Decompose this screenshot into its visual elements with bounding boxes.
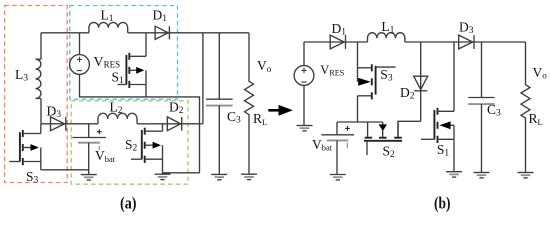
svg-text:S1: S1	[437, 142, 450, 159]
label RL (a)	[253, 111, 267, 127]
label D3 (b)	[459, 20, 474, 36]
transistor S3 (a)	[9, 124, 41, 170]
capacitor C3 (b)	[468, 42, 494, 173]
source VRES (b)	[294, 66, 314, 86]
dashed box blue (L1/D1/S1 cell)	[70, 6, 178, 100]
transistor S2 (a)	[131, 124, 163, 174]
svg-text:(b): (b)	[434, 194, 451, 213]
ground Vbat (b)	[330, 175, 346, 180]
ground S1 (b)	[446, 172, 462, 177]
svg-text:D3: D3	[459, 20, 474, 36]
resistor RL (a)	[245, 33, 254, 174]
wire VRES top lead	[79, 33, 81, 55]
diode D3 (b)	[459, 35, 474, 49]
label L3	[15, 67, 28, 84]
wire lower rail (a) S2/D2 segment	[137, 123, 203, 125]
svg-text:RL: RL	[253, 111, 267, 127]
ground VRES (b)	[297, 126, 313, 131]
label Vbat (b)	[312, 137, 333, 153]
label Vo (b)	[533, 65, 548, 81]
svg-text:L1: L1	[101, 8, 114, 25]
wire top rail (a) left segment	[41, 32, 89, 34]
transistor S1 (b)	[421, 42, 454, 172]
wire return rail (a) VRES- to S1 source to ground drop	[80, 74, 200, 172]
label S1 (b)	[437, 142, 450, 159]
label S3 (b)	[380, 67, 393, 84]
label S2 (a)	[125, 137, 138, 154]
wire S3 (b) source down to Vbat rail	[357, 96, 359, 122]
diode D1 (b)	[330, 35, 345, 49]
wire D2 (b) cathode jog to S2 right bar	[398, 121, 421, 137]
battery Vbat (b)	[321, 122, 354, 175]
label (b)	[434, 194, 451, 213]
label L1 (a)	[101, 8, 114, 25]
label Vo (a)	[257, 58, 272, 74]
inductor L3	[36, 59, 42, 98]
diode D2 (b) vertical	[414, 42, 428, 121]
label L2	[110, 100, 123, 117]
battery Vbat (a)	[72, 124, 106, 175]
label D2 (b)	[400, 85, 415, 102]
wire lower rail (a) D3 segment	[41, 123, 98, 125]
label S1 (a)	[112, 70, 125, 87]
svg-text:Vbat: Vbat	[95, 148, 116, 164]
inductor L1 (b)	[367, 33, 404, 42]
svg-text:Vo: Vo	[257, 58, 272, 74]
source VRES (a)	[70, 55, 90, 75]
svg-text:RL: RL	[529, 111, 543, 127]
svg-text:(a): (a)	[120, 194, 137, 213]
wire L3 bottom lead	[40, 99, 42, 124]
transistor S1 (a)	[118, 33, 147, 97]
ground Vbat (a)	[81, 175, 97, 180]
label C3 (b)	[487, 102, 501, 119]
label D2 (a)	[169, 100, 184, 117]
svg-text:S2: S2	[383, 144, 396, 161]
resistor RL (b)	[521, 42, 530, 173]
svg-text:S1: S1	[112, 70, 125, 87]
svg-text:S3: S3	[380, 67, 393, 84]
wire top rail (a) right segment through D1	[128, 32, 249, 34]
svg-text:VRES: VRES	[320, 63, 344, 78]
svg-text:S2: S2	[125, 137, 138, 154]
wire output join riser	[202, 33, 204, 124]
svg-text:S3: S3	[26, 169, 39, 186]
capacitor C3 (a)	[206, 33, 233, 175]
wire VRES (b) bottom lead	[303, 85, 305, 125]
svg-text:D2: D2	[400, 85, 415, 102]
label D1 (a)	[153, 8, 168, 25]
inductor L1 (a)	[89, 22, 128, 32]
svg-text:Vbat: Vbat	[312, 137, 333, 153]
diode D3 (a)	[51, 117, 66, 131]
svg-text:L3: L3	[15, 67, 28, 84]
svg-text:L2: L2	[110, 100, 123, 117]
svg-text:C3: C3	[487, 102, 501, 119]
ground C3 (a)	[211, 174, 227, 179]
wire top rail (b) right segment through D3	[405, 41, 526, 43]
wire VRES (b) top lead	[303, 42, 305, 66]
label S2 (b)	[383, 144, 396, 161]
label D1 (b)	[332, 21, 347, 38]
svg-text:D1: D1	[332, 21, 347, 38]
ground RL (b)	[518, 173, 534, 178]
label VRES (a)	[94, 55, 121, 70]
ground S2 (a)	[155, 174, 171, 179]
diode D2 (a)	[167, 117, 181, 131]
label (a)	[120, 194, 137, 213]
transistor S2 (b) rotated	[364, 122, 402, 155]
svg-text:D1: D1	[153, 8, 168, 25]
svg-text:Vo: Vo	[533, 65, 548, 81]
label S3 (a)	[26, 169, 39, 186]
label RL (b)	[529, 111, 543, 127]
label D3 (a)	[47, 104, 62, 121]
label L1 (b)	[381, 19, 394, 36]
svg-text:L1: L1	[381, 19, 394, 36]
ground C3 (b)	[474, 173, 490, 178]
wire Vbat+ rail to S2 (b)	[337, 121, 383, 123]
label C3 (a)	[227, 109, 241, 126]
label Vbat (a)	[95, 148, 116, 164]
wire S3 source to Vbat ground	[41, 169, 89, 171]
dashed box red (L3/D3/S3 cell)	[5, 6, 68, 183]
inductor L2	[98, 113, 137, 124]
svg-text:C3: C3	[227, 109, 241, 126]
wire S2 source to return drop	[163, 172, 200, 174]
ground RL (a)	[241, 174, 257, 179]
diode D1 (a)	[155, 26, 169, 39]
svg-text:VRES: VRES	[94, 55, 121, 70]
dashed box green (L2/D2/S2 cell)	[71, 101, 188, 184]
svg-text:D2: D2	[169, 100, 184, 117]
transistor S3 (b)	[358, 42, 396, 99]
label VRES (b)	[320, 63, 344, 78]
wire L3 top lead	[40, 33, 42, 59]
arrow between circuits	[268, 105, 293, 116]
svg-text:D3: D3	[47, 104, 62, 121]
wire top rail (b) left segment through D1	[304, 41, 368, 43]
